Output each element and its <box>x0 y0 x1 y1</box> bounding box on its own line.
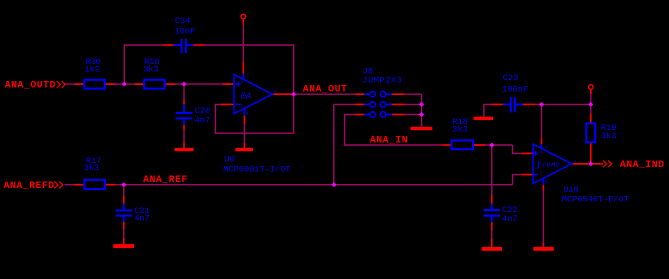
svg-text:100nF: 100nF <box>502 85 528 95</box>
svg-text:10nF: 10nF <box>175 26 196 36</box>
svg-text:ANA_OUT: ANA_OUT <box>303 83 348 94</box>
svg-text:C23: C23 <box>503 73 519 83</box>
svg-text:3k3: 3k3 <box>84 163 100 173</box>
svg-text:4n7: 4n7 <box>134 214 150 224</box>
svg-text:COMP: COMP <box>542 162 560 169</box>
svg-text:U9: U9 <box>224 155 234 165</box>
svg-text:ANA_REF: ANA_REF <box>143 174 188 185</box>
svg-text:ANA_IND: ANA_IND <box>620 159 665 170</box>
svg-text:3k3: 3k3 <box>143 65 159 75</box>
svg-text:ANA_REFD: ANA_REFD <box>4 180 55 191</box>
svg-text:U10: U10 <box>563 185 579 195</box>
svg-text:1k2: 1k2 <box>84 65 100 75</box>
svg-text:3k3: 3k3 <box>601 131 617 141</box>
svg-text:0A: 0A <box>241 92 252 102</box>
svg-text:4n7: 4n7 <box>502 214 518 224</box>
svg-text:MCP6001T-I/OT: MCP6001T-I/OT <box>223 165 290 175</box>
svg-text:ANA_OUTD: ANA_OUTD <box>5 79 56 90</box>
svg-text:C20: C20 <box>195 106 211 116</box>
svg-text:JUMP2X3: JUMP2X3 <box>362 75 402 85</box>
svg-text:4n7: 4n7 <box>195 115 211 125</box>
svg-text:C34: C34 <box>175 16 191 26</box>
svg-text:3k3: 3k3 <box>452 124 468 134</box>
svg-text:MCP6546T-E/OT: MCP6546T-E/OT <box>562 195 629 205</box>
svg-text:ANA_IN: ANA_IN <box>370 134 408 145</box>
